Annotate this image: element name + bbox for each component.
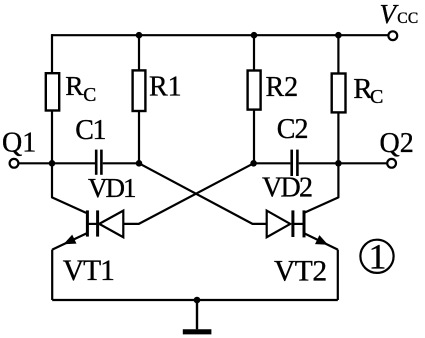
wire VT2 collector (305, 163, 339, 212)
svg-text:Q2: Q2 (380, 128, 414, 159)
node rail-RC2 junction (335, 32, 342, 39)
wire VT2 emitter to bottom (337, 250, 339, 300)
wire cross-coupling R1 node to VT2 base (139, 163, 267, 224)
diode VD2 (267, 210, 304, 237)
wire bottom rail (52, 299, 338, 301)
figure number 1 (360, 237, 393, 277)
diode VD1 (87, 210, 123, 237)
VCC terminal (388, 31, 397, 40)
capacitor C2 (292, 150, 298, 176)
wire Q1 to C1 (18, 162, 95, 164)
label RC2 (353, 73, 383, 108)
svg-text:R1: R1 (149, 72, 182, 103)
resistor R2 (248, 35, 261, 163)
wire Q2 row (338, 162, 387, 164)
capacitor C1 (96, 150, 101, 175)
svg-text:C1: C1 (75, 115, 105, 146)
node Q1 collector junction (49, 160, 56, 167)
wire R2 node to C2 (254, 162, 291, 164)
wire cross-coupling R2 node to VD1 anode (123, 163, 253, 224)
wire VT1 emitter to bottom (51, 250, 53, 300)
svg-text:1: 1 (369, 237, 387, 277)
transistor VT2 (304, 210, 338, 249)
node R2-C2 junction (250, 160, 257, 167)
svg-text:VD1: VD1 (88, 173, 135, 203)
terminal Q1 (10, 159, 19, 168)
resistor RC2 (332, 35, 346, 163)
svg-text:CC: CC (397, 10, 418, 27)
terminal Q2 (387, 159, 396, 168)
resistor R1 (133, 35, 146, 163)
node rail-R1 junction (136, 32, 143, 39)
transistor VT1 (52, 210, 87, 249)
ground (183, 300, 212, 332)
svg-text:VD2: VD2 (262, 173, 312, 204)
node R1-C1 junction (136, 160, 143, 167)
resistor RC1 (46, 34, 59, 163)
svg-text:R: R (65, 70, 84, 101)
label RC1 (65, 70, 96, 106)
wire C1 to R1 node (103, 162, 139, 164)
node ground junction (194, 297, 201, 304)
svg-text:C: C (370, 86, 383, 108)
node rail-R2 junction (251, 32, 258, 39)
svg-text:C2: C2 (277, 114, 308, 145)
wire VT1 collector (52, 163, 86, 213)
node Q2 collector junction (335, 160, 342, 167)
svg-text:C: C (83, 85, 96, 106)
wire VCC top rail (52, 34, 389, 36)
svg-text:R2: R2 (266, 72, 299, 103)
svg-text:VT1: VT1 (63, 255, 114, 287)
svg-text:Q1: Q1 (2, 128, 36, 159)
wire C2 to Q2 node (299, 162, 339, 164)
svg-text:VT2: VT2 (274, 256, 327, 288)
label VCC (380, 0, 419, 29)
